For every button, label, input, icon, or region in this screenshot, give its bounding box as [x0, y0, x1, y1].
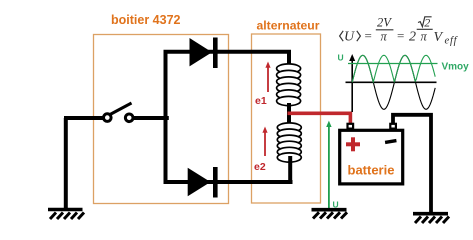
- svg-text:=: =: [365, 28, 372, 43]
- wire: stub top wire to coil e1: [287, 50, 291, 67]
- arrow e2: [262, 127, 267, 157]
- svg-text:2: 2: [409, 30, 416, 45]
- waveform vertical axis U: [349, 54, 355, 112]
- ground (right): [413, 214, 449, 223]
- alternateur box: [252, 34, 321, 203]
- battery - terminal: [390, 124, 396, 129]
- wire: bus vertical: [164, 52, 168, 182]
- diode D1: [190, 38, 218, 69]
- wire: battery - to right ground: [393, 115, 431, 212]
- svg-text:π: π: [421, 30, 428, 44]
- svg-text:U: U: [344, 30, 355, 45]
- wire: top branch: [164, 50, 292, 54]
- rectified wave (green): [352, 55, 435, 82]
- battery body: [340, 130, 403, 184]
- svg-text:batterie: batterie: [348, 163, 395, 178]
- node: center tap stub: [287, 103, 291, 127]
- boitier 4372 box: [94, 35, 229, 204]
- svg-text:e1: e1: [255, 95, 267, 107]
- svg-text:=: =: [397, 28, 404, 43]
- coil e2: [277, 123, 301, 162]
- svg-text:Vmoy: Vmoy: [442, 62, 470, 73]
- wire: stub coil e2 to bottom branch: [288, 156, 292, 184]
- svg-text:V: V: [434, 30, 444, 45]
- formula radical sign sqrt: [418, 17, 432, 27]
- wire: left to switch: [64, 116, 104, 120]
- wire: switch to bus: [133, 116, 169, 120]
- formula angle brackets: [340, 31, 361, 41]
- svg-text:alternateur: alternateur: [257, 19, 320, 33]
- svg-text:π: π: [381, 30, 388, 44]
- wire: left riser to ground: [64, 118, 68, 209]
- switch S contact left: [104, 114, 112, 122]
- arrow U (green): [326, 121, 331, 208]
- ground (middle): [312, 210, 348, 219]
- svg-text:eff: eff: [445, 36, 459, 47]
- diode D2: [188, 167, 218, 198]
- svg-text:2V: 2V: [377, 16, 392, 30]
- sine wave (black): [352, 55, 435, 109]
- battery + sign: [346, 137, 360, 151]
- svg-text:U: U: [338, 53, 344, 63]
- ground (left): [48, 210, 84, 220]
- coil e1: [277, 64, 301, 106]
- svg-text:2: 2: [424, 16, 430, 30]
- battery - sign: [385, 139, 397, 144]
- wire (red): center tap to battery + terminal: [288, 113, 351, 124]
- svg-text:e2: e2: [254, 161, 266, 173]
- formula: <U> = 2V/pi = 2 sqrt2/pi Veff: [344, 16, 459, 47]
- svg-text:boitier 4372: boitier 4372: [111, 13, 181, 27]
- formula fraction bars: [376, 28, 433, 31]
- Vmoy average line (green): [348, 63, 438, 65]
- arrow e1: [265, 62, 270, 93]
- wire: bottom branch: [164, 180, 293, 184]
- battery + terminal: [348, 124, 354, 129]
- switch S lever: [110, 103, 132, 115]
- switch S contact right: [125, 114, 133, 122]
- waveform horizontal axis: [346, 81, 437, 83]
